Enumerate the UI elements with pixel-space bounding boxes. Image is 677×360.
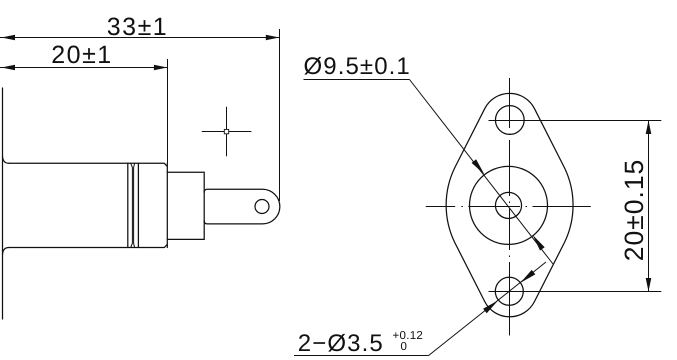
left view: body section line bbox=[127, 163, 129, 247]
svg-text:Ø9.5±0.1: Ø9.5±0.1 bbox=[304, 53, 411, 80]
dim 20 right arrow bbox=[154, 65, 168, 71]
bottom hole centerline / extension bbox=[489, 291, 662, 293]
left view: front ring line bbox=[137, 163, 139, 247]
left view: body top edge bbox=[9, 163, 167, 166]
leader 2-Ø3.5 underline bbox=[294, 355, 429, 357]
right view: bottom mounting hole bbox=[495, 277, 523, 305]
2-Ø3.5 lower-left arrow bbox=[483, 300, 498, 313]
leader 2-Ø3.5 diagonal bbox=[429, 262, 546, 356]
left view: solder lug hole bbox=[255, 200, 269, 214]
horizontal centerline bbox=[426, 206, 591, 208]
2-Ø3.5 upper-right arrow bbox=[520, 270, 535, 283]
dim 20±0.15 top arrow bbox=[646, 121, 652, 135]
leader Ø9.5 diagonal bbox=[410, 80, 554, 265]
dim 33 line bbox=[0, 37, 279, 39]
right view: big circle bbox=[470, 166, 548, 244]
dim 33 extension line bbox=[279, 29, 281, 201]
svg-text:33±1: 33±1 bbox=[107, 13, 168, 41]
left view: body bottom edge bbox=[9, 244, 167, 247]
dim 20 extension line bbox=[167, 59, 169, 163]
dim 20 left arrow bbox=[2, 65, 16, 71]
left view: groove left line with V ends bbox=[131, 163, 133, 247]
left view: solder lug outline bbox=[204, 189, 280, 224]
vertical centerline bbox=[509, 78, 511, 336]
right view: flange outline bbox=[446, 93, 573, 316]
Ø9.5 upper-left arrow bbox=[472, 159, 485, 174]
crosshair vertical bbox=[226, 107, 228, 157]
dim 20±0.15 bottom arrow bbox=[646, 278, 652, 292]
leader Ø9.5 underline bbox=[304, 79, 410, 81]
left view: bottom fillet flange-to-body bbox=[3, 248, 10, 255]
right view: inner circle bbox=[495, 192, 521, 218]
left view: insulator block bbox=[167, 172, 204, 239]
left view: body front face bbox=[166, 163, 168, 247]
Ø9.5 lower-right arrow bbox=[533, 235, 545, 251]
svg-text:2−Ø3.5: 2−Ø3.5 bbox=[298, 330, 384, 357]
svg-text:20±1: 20±1 bbox=[51, 41, 112, 69]
crosshair horizontal bbox=[202, 131, 252, 133]
dim 20 line bbox=[0, 67, 167, 69]
svg-text:0: 0 bbox=[401, 341, 408, 353]
crosshair center box bbox=[224, 129, 228, 133]
dim 33 left arrow bbox=[2, 35, 16, 41]
dim 20±0.15 line bbox=[648, 121, 650, 292]
svg-text:+0.12: +0.12 bbox=[393, 330, 424, 342]
left view: top fillet flange-to-body bbox=[3, 157, 10, 164]
dim 33 right arrow bbox=[266, 35, 280, 41]
left view: flange edge-on vertical line bbox=[2, 88, 4, 319]
top hole centerline / extension bbox=[489, 120, 662, 122]
left view: groove right line with V ends bbox=[134, 163, 135, 247]
svg-text:20±0.15: 20±0.15 bbox=[619, 159, 649, 262]
right view: top mounting hole bbox=[495, 106, 524, 135]
